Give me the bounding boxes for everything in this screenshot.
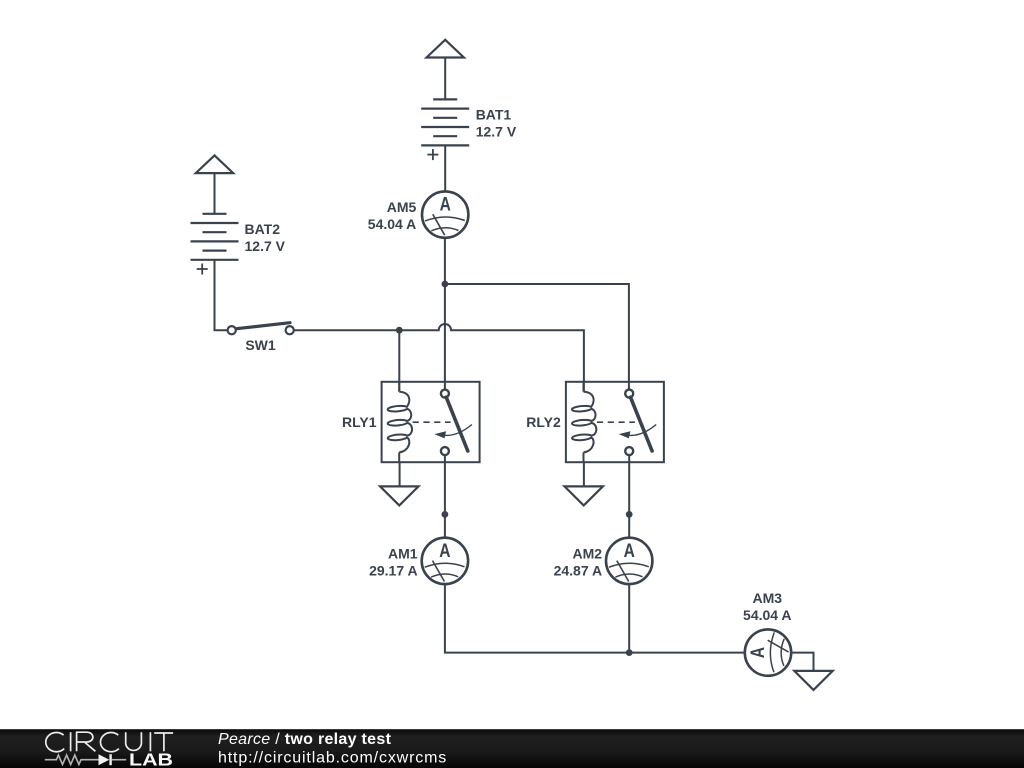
wire AM5 to node A [444, 238, 446, 284]
svg-text:RLY1: RLY1 [342, 414, 377, 430]
svg-text:A: A [747, 647, 769, 659]
wire power to BAT1 [444, 58, 446, 100]
relay RLY2 [526, 382, 664, 462]
power supply symbol VCC (top of BAT2) [196, 155, 233, 173]
wire SW1 to node B [294, 329, 400, 331]
svg-text:AM5: AM5 [387, 199, 417, 215]
wire BAT1 to AM5 [444, 145, 446, 191]
node A junction dot [442, 281, 449, 288]
wire node A down to RLY1 switch pin (crosses SW1 wire) [444, 284, 446, 390]
svg-text:BAT1: BAT1 [476, 107, 512, 123]
svg-text:RLY2: RLY2 [526, 414, 561, 430]
wire AM3 to ground [791, 653, 813, 671]
svg-text:SW1: SW1 [245, 337, 276, 353]
svg-text:LAB: LAB [129, 749, 173, 768]
wire AM2 to bottom bus [628, 584, 630, 653]
wire node A to RLY2 switch pin [445, 284, 629, 390]
label AM1 value [369, 545, 418, 578]
svg-text:Pearce / two relay test: Pearce / two relay test [218, 731, 392, 748]
CircuitLab logo: diode symbol [99, 754, 127, 765]
junction dot above AM2 [626, 511, 633, 518]
switch SW1 [228, 323, 294, 335]
wire RLY2 switch to AM2 [628, 455, 630, 538]
wire RLY2 coil to ground [583, 462, 585, 486]
svg-text:A: A [624, 539, 636, 561]
svg-text:AM1: AM1 [388, 545, 418, 561]
junction dot above AM1 [442, 511, 449, 518]
relay RLY1 [342, 382, 480, 462]
wire node B to RLY2 coil pin with hop over crossing [399, 324, 584, 391]
svg-text:A: A [439, 539, 451, 561]
svg-text:AM2: AM2 [573, 545, 603, 561]
svg-text:24.87 A: 24.87 A [554, 562, 603, 578]
svg-text:12.7 V: 12.7 V [245, 238, 286, 254]
CircuitLab logo: CIRCUIT lettering [46, 732, 173, 752]
CircuitLab logo: resistor squiggle [45, 755, 99, 765]
svg-text:http://circuitlab.com/cxwrcms: http://circuitlab.com/cxwrcms [218, 749, 447, 766]
wire BAT2 to SW1 [215, 260, 228, 330]
wire RLY1 switch to AM1 [444, 455, 446, 538]
wire node B to RLY1 coil pin [398, 330, 400, 391]
wire RLY1 coil to ground [399, 462, 401, 486]
wire power to BAT2 [214, 173, 216, 214]
ammeter AM3 (rotated) [745, 629, 791, 675]
svg-text:54.04 A: 54.04 A [743, 607, 792, 623]
ammeter AM1 [422, 538, 468, 584]
label AM3 value [743, 590, 792, 623]
ground (AM3) [794, 671, 832, 690]
svg-text:A: A [440, 193, 452, 215]
svg-text:BAT2: BAT2 [245, 221, 281, 237]
power supply symbol VCC (top of BAT1) [427, 40, 464, 58]
svg-text:29.17 A: 29.17 A [369, 562, 418, 578]
ammeter AM2 [606, 538, 652, 584]
label AM2 value [554, 545, 603, 578]
node B junction dot [396, 327, 403, 334]
svg-text:12.7 V: 12.7 V [476, 124, 517, 140]
ammeter AM5 [422, 191, 468, 237]
ground (RLY1 coil) [380, 486, 418, 505]
battery BAT2 [191, 214, 239, 275]
wire AM1 to bottom bus [445, 584, 745, 653]
label BAT2 value [245, 221, 286, 254]
node C junction dot on bus [626, 649, 633, 656]
svg-text:AM3: AM3 [753, 590, 783, 606]
svg-text:54.04 A: 54.04 A [368, 216, 417, 232]
label BAT1 value [476, 107, 517, 140]
ground (RLY2 coil) [565, 486, 603, 505]
battery BAT1 [421, 99, 469, 160]
label AM5 value [368, 199, 417, 232]
